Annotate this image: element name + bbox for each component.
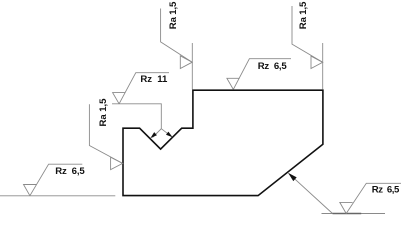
svg-text:Rz 11: Rz 11	[140, 74, 168, 85]
svg-text:Ra 1,5: Ra 1,5	[98, 98, 109, 127]
svg-text:Ra 1,5: Ra 1,5	[168, 1, 179, 29]
svg-text:Rz 6,5: Rz 6,5	[55, 166, 85, 177]
svg-text:Rz 6,5: Rz 6,5	[258, 61, 288, 72]
svg-text:Ra 1,5: Ra 1,5	[298, 1, 309, 29]
svg-text:Rz 6,5: Rz 6,5	[372, 185, 400, 196]
